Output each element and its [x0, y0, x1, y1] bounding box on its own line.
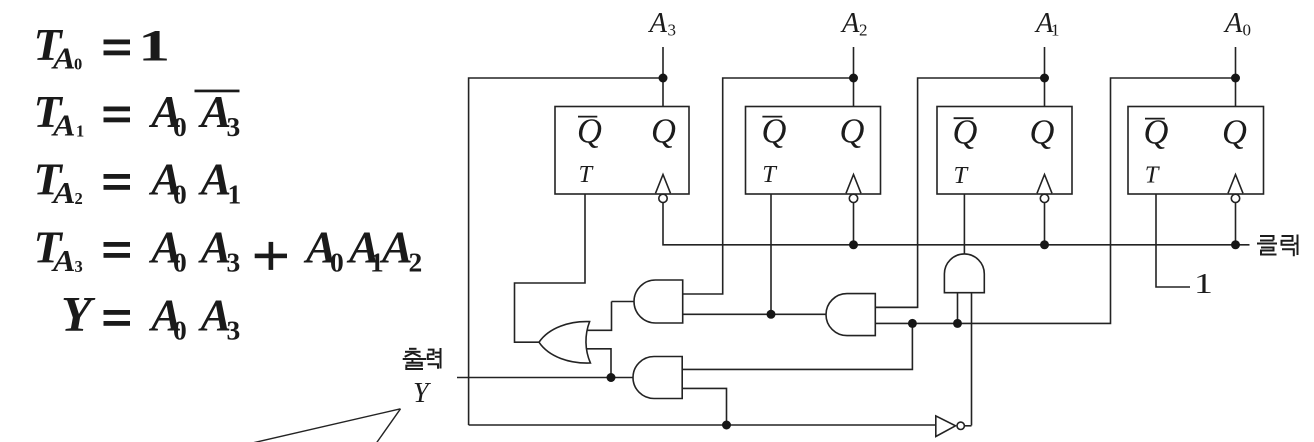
- svg-text:0: 0: [1243, 21, 1252, 40]
- svg-text:3: 3: [75, 257, 83, 276]
- svg-text:A: A: [198, 154, 232, 205]
- svg-text:A: A: [648, 8, 668, 39]
- svg-text:1: 1: [1051, 21, 1060, 40]
- svg-text:A: A: [51, 243, 76, 278]
- svg-text:3: 3: [668, 21, 677, 40]
- svg-text:Q: Q: [1222, 113, 1247, 151]
- svg-text:Y: Y: [61, 286, 96, 342]
- svg-text:0: 0: [330, 247, 344, 278]
- svg-text:Q: Q: [577, 112, 602, 150]
- svg-text:0: 0: [173, 247, 187, 278]
- svg-text:T: T: [954, 162, 970, 189]
- svg-text:0: 0: [173, 111, 187, 142]
- svg-text:0: 0: [173, 315, 187, 346]
- svg-text:T: T: [1145, 162, 1161, 189]
- svg-text:Y: Y: [413, 378, 432, 409]
- svg-text:A: A: [51, 108, 76, 143]
- svg-text:A: A: [51, 175, 76, 210]
- svg-text:1: 1: [1194, 269, 1213, 300]
- svg-text:Q: Q: [840, 112, 865, 150]
- svg-text:T: T: [579, 161, 595, 188]
- svg-text:3: 3: [227, 111, 241, 142]
- svg-text:2: 2: [409, 247, 423, 278]
- svg-text:2: 2: [859, 21, 868, 40]
- svg-text:0: 0: [74, 55, 82, 74]
- svg-text:Q: Q: [762, 112, 787, 150]
- svg-text:3: 3: [227, 247, 241, 278]
- svg-text:1: 1: [76, 122, 84, 141]
- svg-text:1: 1: [228, 179, 242, 210]
- svg-text:A: A: [840, 8, 860, 39]
- svg-text:T: T: [762, 161, 778, 188]
- svg-text:2: 2: [75, 189, 83, 208]
- svg-text:A: A: [1223, 8, 1243, 39]
- svg-text:A: A: [51, 41, 76, 76]
- svg-text:1: 1: [138, 21, 170, 70]
- svg-text:3: 3: [227, 315, 241, 346]
- svg-text:0: 0: [173, 179, 187, 210]
- svg-text:Q: Q: [651, 112, 676, 150]
- svg-text:Q: Q: [1030, 113, 1055, 151]
- svg-text:1: 1: [370, 247, 384, 278]
